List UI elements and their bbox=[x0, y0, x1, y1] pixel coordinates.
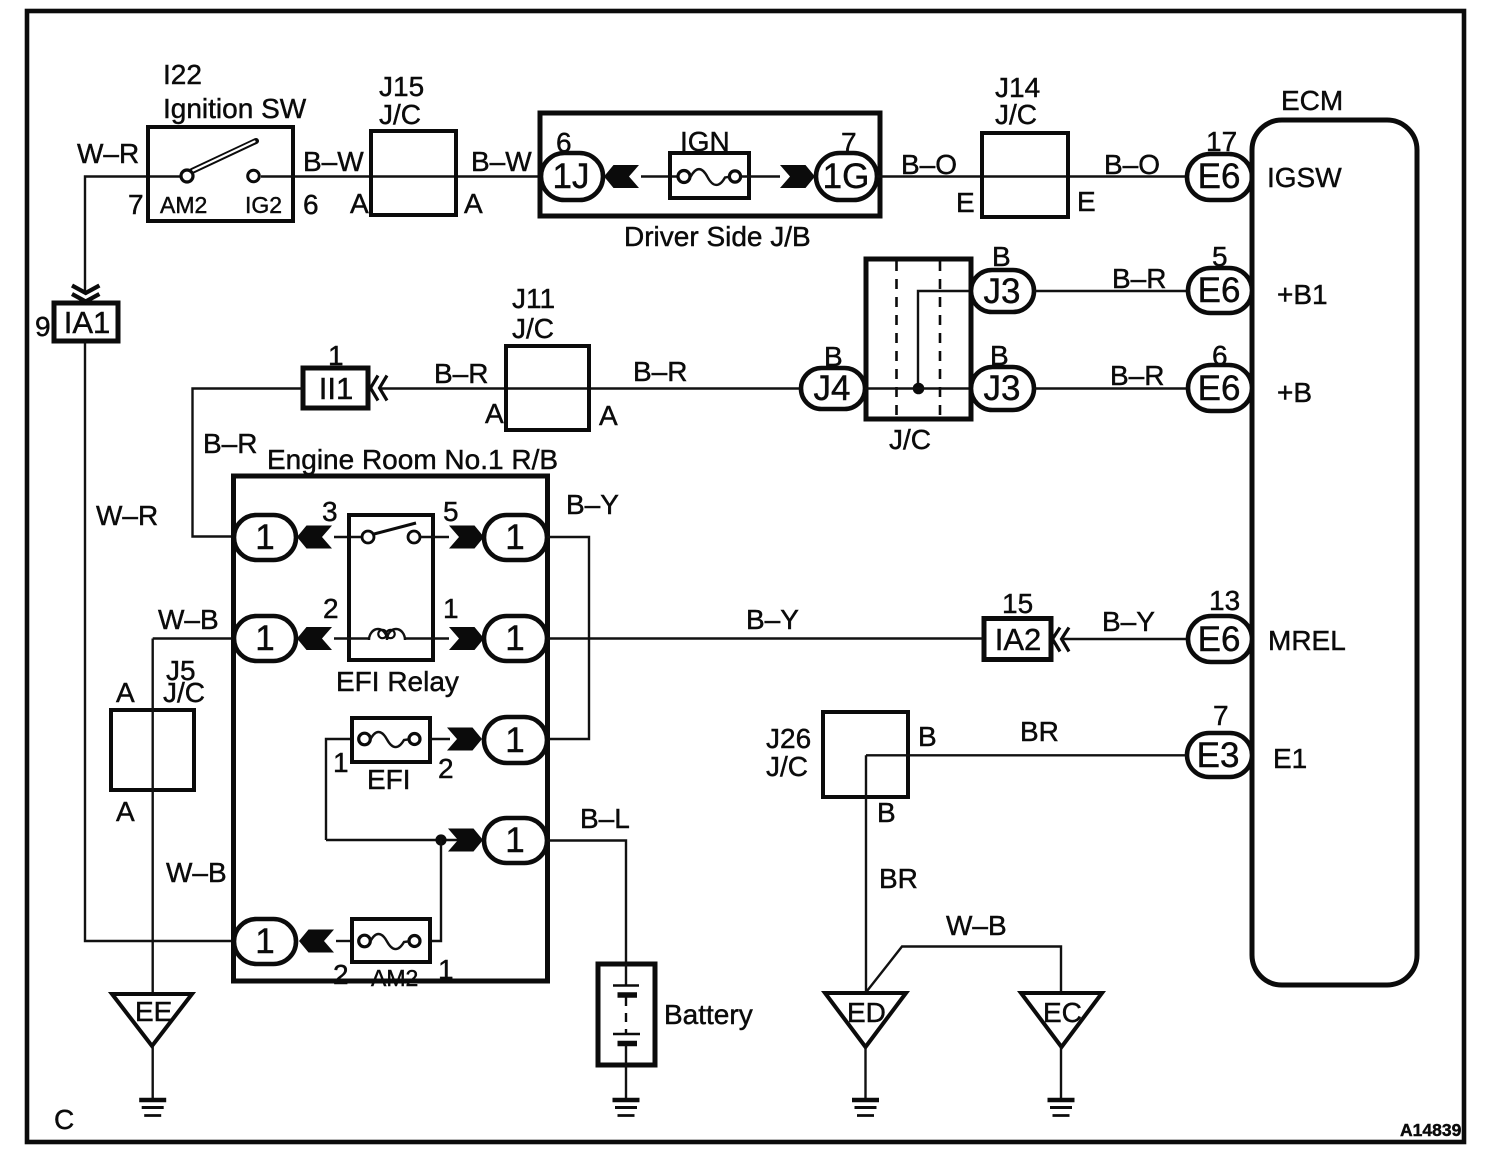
svg-text:Driver Side J/B: Driver Side J/B bbox=[624, 221, 811, 252]
connector E3 E1 bbox=[1187, 733, 1252, 777]
wire W-B ED to EC bbox=[867, 947, 1061, 994]
wire dot down to AM2 fuse bbox=[430, 840, 441, 941]
wire relay to arrow bbox=[420, 536, 449, 538]
wire to IGN fuse bbox=[641, 175, 680, 177]
svg-text:Engine Room No.1 R/B: Engine Room No.1 R/B bbox=[267, 444, 558, 475]
svg-text:IA2: IA2 bbox=[995, 622, 1042, 657]
svg-text:1: 1 bbox=[505, 518, 524, 557]
svg-text:2: 2 bbox=[323, 593, 339, 624]
svg-text:7: 7 bbox=[128, 189, 144, 220]
ground ED triangle bbox=[825, 993, 906, 1047]
svg-text:B–L: B–L bbox=[580, 803, 630, 834]
connector 1 (AM2 row) bbox=[234, 919, 296, 964]
svg-text:J/C: J/C bbox=[995, 99, 1037, 130]
svg-text:A: A bbox=[116, 677, 135, 708]
battery cells bbox=[625, 964, 627, 985]
wire coil to arrow bbox=[405, 637, 449, 639]
svg-text:EC: EC bbox=[1043, 997, 1082, 1028]
svg-text:W–B: W–B bbox=[946, 910, 1007, 941]
ground symbol ED bbox=[852, 1100, 879, 1116]
wire B-Y loop to EFI fuse row bbox=[547, 537, 589, 739]
svg-text:1: 1 bbox=[505, 721, 524, 760]
arrow out of coil bbox=[449, 627, 484, 650]
relay lever bbox=[374, 523, 416, 534]
svg-text:1: 1 bbox=[255, 619, 274, 658]
ground symbol battery bbox=[613, 1100, 640, 1116]
svg-text:W–R: W–R bbox=[77, 138, 139, 169]
svg-text:1: 1 bbox=[443, 593, 459, 624]
svg-text:ED: ED bbox=[847, 997, 886, 1028]
connector E6 +B1 bbox=[1188, 268, 1252, 313]
svg-text:J/C: J/C bbox=[512, 313, 554, 344]
svg-text:B–R: B–R bbox=[203, 428, 257, 459]
wire B-Y coil out to IA2 bbox=[547, 637, 984, 639]
wire B-L row bbox=[326, 839, 459, 841]
connector 1G bbox=[816, 153, 877, 200]
svg-text:J/C: J/C bbox=[379, 99, 421, 130]
wire B-R to E6 +B bbox=[1034, 387, 1188, 389]
battery box bbox=[598, 964, 655, 1065]
svg-text:B–Y: B–Y bbox=[746, 604, 799, 635]
svg-text:II1: II1 bbox=[319, 371, 353, 406]
svg-text:3: 3 bbox=[322, 496, 338, 527]
svg-text:1: 1 bbox=[255, 518, 274, 557]
svg-text:BR: BR bbox=[1020, 716, 1059, 747]
connector E6 +B bbox=[1188, 365, 1252, 411]
svg-text:+B1: +B1 bbox=[1277, 279, 1328, 310]
svg-text:13: 13 bbox=[1209, 585, 1240, 616]
wire W-B from relay coil feed bbox=[153, 637, 236, 639]
svg-text:B–R: B–R bbox=[1112, 263, 1166, 294]
svg-text:E6: E6 bbox=[1198, 271, 1241, 310]
dashed line bbox=[895, 261, 898, 417]
svg-text:A: A bbox=[485, 398, 504, 429]
svg-text:B: B bbox=[992, 241, 1011, 272]
svg-text:E6: E6 bbox=[1198, 157, 1241, 196]
svg-text:B–Y: B–Y bbox=[566, 489, 619, 520]
svg-text:B–Y: B–Y bbox=[1102, 606, 1155, 637]
node IA1 entry chevrons bbox=[72, 286, 99, 302]
box Driver Side J/B bbox=[540, 113, 880, 216]
svg-text:W–B: W–B bbox=[166, 857, 227, 888]
svg-text:B: B bbox=[877, 797, 896, 828]
svg-text:W–R: W–R bbox=[96, 500, 158, 531]
svg-text:E6: E6 bbox=[1198, 369, 1241, 408]
arrow out of relay contact bbox=[449, 526, 484, 549]
connector J4 bbox=[801, 368, 865, 409]
connector 1 (EFI fuse out) bbox=[484, 717, 547, 763]
fuse EFI bbox=[326, 739, 352, 840]
wire arrow to AM2 fuse bbox=[336, 940, 352, 942]
wire W-R ignition feed bbox=[85, 177, 181, 292]
ground EC triangle bbox=[1021, 993, 1102, 1047]
svg-text:1J: 1J bbox=[553, 157, 590, 196]
svg-text:MREL: MREL bbox=[1268, 625, 1346, 656]
connector 1 (relay contact in) bbox=[234, 515, 296, 560]
svg-text:J11: J11 bbox=[512, 283, 555, 314]
wire arrow to relay bbox=[334, 536, 362, 538]
wire EC to ground bbox=[1060, 1047, 1062, 1098]
svg-text:5: 5 bbox=[443, 496, 459, 527]
svg-text:J/C: J/C bbox=[889, 424, 931, 455]
svg-text:BR: BR bbox=[879, 863, 918, 894]
wire W-B down to EE bbox=[151, 639, 153, 995]
wire ED to ground bbox=[864, 1047, 866, 1098]
svg-text:ECM: ECM bbox=[1281, 85, 1343, 116]
svg-text:EFI Relay: EFI Relay bbox=[336, 666, 459, 697]
svg-text:EE: EE bbox=[135, 996, 172, 1027]
dashed line bbox=[939, 261, 942, 417]
svg-text:A14839: A14839 bbox=[1400, 1120, 1462, 1140]
connector E6 MREL bbox=[1188, 616, 1252, 662]
wire B-R to E6 +B1 bbox=[1034, 290, 1188, 292]
svg-text:1: 1 bbox=[438, 954, 454, 985]
connector 1 (relay contact out) bbox=[484, 515, 547, 560]
connector J3 (+B1) bbox=[971, 270, 1034, 312]
wire arrow to coil bbox=[334, 637, 369, 639]
switch contact AM2 bbox=[181, 170, 193, 182]
svg-text:B–R: B–R bbox=[633, 356, 687, 387]
svg-text:E6: E6 bbox=[1198, 620, 1241, 659]
fuse AM2 bbox=[352, 919, 430, 962]
svg-text:C: C bbox=[54, 1104, 74, 1135]
svg-text:B–W: B–W bbox=[303, 146, 364, 177]
ground symbol EC bbox=[1048, 1100, 1075, 1116]
wire BR J26 down to ED bbox=[865, 755, 867, 993]
connector 1 (B-L) bbox=[484, 818, 547, 863]
svg-text:IG2: IG2 bbox=[245, 192, 282, 218]
svg-text:E: E bbox=[956, 187, 975, 218]
wire B-R II1 to J4 bbox=[381, 387, 801, 389]
svg-text:AM2: AM2 bbox=[160, 192, 207, 218]
connector 1J bbox=[541, 153, 603, 200]
svg-text:A: A bbox=[116, 796, 135, 827]
svg-text:IA1: IA1 bbox=[64, 305, 111, 340]
svg-text:2: 2 bbox=[333, 959, 349, 990]
connector E6 IGSW bbox=[1187, 154, 1252, 200]
svg-text:J/C: J/C bbox=[163, 677, 205, 708]
arrow into 1J bbox=[604, 165, 639, 188]
ground EE triangle bbox=[112, 994, 192, 1046]
svg-text:Ignition SW: Ignition SW bbox=[163, 93, 307, 124]
svg-text:B–W: B–W bbox=[471, 146, 532, 177]
wire EE to ground bbox=[151, 1046, 153, 1098]
svg-text:E1: E1 bbox=[1273, 743, 1307, 774]
connector J3 (+B) bbox=[971, 367, 1034, 410]
arrow into AM2 row connector bbox=[299, 930, 334, 953]
svg-text:7: 7 bbox=[1213, 700, 1229, 731]
wire fuse to arrow bbox=[430, 738, 450, 740]
svg-text:B: B bbox=[918, 721, 937, 752]
connector 1 (coil out) bbox=[484, 616, 547, 661]
wire B-W switch to 1J bbox=[261, 175, 541, 177]
arrow into B-L connector bbox=[448, 829, 483, 852]
svg-text:B–R: B–R bbox=[1110, 360, 1164, 391]
arrow out of EFI fuse bbox=[447, 728, 482, 751]
wire B-Y E6 MREL to IA2 bbox=[1062, 638, 1188, 640]
junction block J/C (dashed) bbox=[866, 259, 971, 419]
wire battery to ground bbox=[625, 1065, 627, 1098]
svg-text:1: 1 bbox=[505, 619, 524, 658]
svg-text:B–R: B–R bbox=[434, 358, 488, 389]
connector II1 bbox=[303, 368, 368, 408]
svg-text:B–O: B–O bbox=[1104, 149, 1160, 180]
svg-text:E3: E3 bbox=[1197, 736, 1240, 775]
relay contact circles bbox=[362, 531, 374, 543]
svg-text:1: 1 bbox=[333, 747, 349, 778]
connector IA1 bbox=[54, 303, 118, 341]
chevrons at II1 bbox=[371, 376, 388, 401]
svg-text:1G: 1G bbox=[823, 157, 870, 196]
svg-text:B–O: B–O bbox=[901, 149, 957, 180]
wire fuse to arrow bbox=[740, 175, 781, 177]
svg-text:6: 6 bbox=[303, 189, 319, 220]
arrow into coil bbox=[297, 627, 332, 650]
relay coil bbox=[369, 629, 405, 640]
wire +B1 branch bbox=[918, 291, 971, 389]
svg-text:1: 1 bbox=[505, 821, 524, 860]
junction dot bbox=[913, 383, 925, 395]
wire +B row through J/C bbox=[865, 387, 971, 389]
svg-text:9: 9 bbox=[35, 311, 51, 342]
svg-text:AM2: AM2 bbox=[371, 965, 418, 991]
svg-text:J3: J3 bbox=[984, 272, 1021, 311]
chevrons at IA2 bbox=[1053, 628, 1070, 652]
wire W-R down to AM2 row bbox=[85, 341, 236, 941]
ground symbol EE bbox=[139, 1100, 166, 1116]
svg-text:Battery: Battery bbox=[664, 999, 753, 1030]
switch contact IG2 bbox=[248, 170, 260, 182]
svg-text:A: A bbox=[464, 188, 483, 219]
svg-text:E: E bbox=[1077, 186, 1096, 217]
svg-text:A: A bbox=[599, 400, 618, 431]
wire B-L to battery bbox=[547, 841, 626, 965]
svg-text:15: 15 bbox=[1002, 588, 1033, 619]
svg-text:J26: J26 bbox=[766, 723, 811, 754]
switch lever bbox=[192, 141, 256, 171]
wire B-R from II1 down to R/B bbox=[193, 389, 304, 537]
junction dot bbox=[435, 834, 446, 845]
svg-text:I22: I22 bbox=[163, 59, 202, 90]
svg-text:J/C: J/C bbox=[766, 751, 808, 782]
svg-text:2: 2 bbox=[438, 753, 454, 784]
svg-text:W–B: W–B bbox=[158, 604, 219, 635]
arrow into relay contact bbox=[297, 526, 332, 549]
arrow into 1G bbox=[780, 165, 815, 188]
svg-text:J3: J3 bbox=[984, 369, 1021, 408]
svg-text:IGSW: IGSW bbox=[1267, 162, 1342, 193]
wire B-O 1G to J14 to E6 bbox=[877, 175, 1187, 177]
svg-text:J4: J4 bbox=[814, 369, 851, 408]
svg-text:EFI: EFI bbox=[367, 764, 411, 795]
wire BR J26 to E3 bbox=[866, 754, 1187, 756]
svg-text:1: 1 bbox=[255, 922, 274, 961]
svg-text:J15: J15 bbox=[379, 71, 424, 102]
connector IA2 bbox=[984, 619, 1051, 660]
svg-text:A: A bbox=[350, 188, 369, 219]
relay EFI Relay box bbox=[349, 515, 433, 660]
svg-text:+B: +B bbox=[1277, 377, 1312, 408]
connector 1 (coil in) bbox=[234, 616, 296, 661]
